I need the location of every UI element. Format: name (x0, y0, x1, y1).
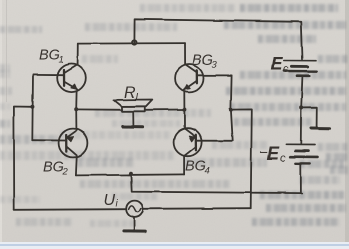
node right bases junction (229, 108, 233, 112)
svg-text:2: 2 (62, 167, 69, 178)
wire BG3 collector riser (184, 43, 186, 64)
transistor Q3 BG3 (NPN mirrored) (175, 64, 203, 92)
transistor Q2 BG2 (PNP) (59, 129, 88, 158)
node B (182, 108, 186, 112)
svg-text:E: E (267, 144, 280, 164)
label RL (124, 85, 141, 104)
wire bottom rail BG2-BG4 collectors (76, 174, 184, 175)
wire junction to far-left drop (14, 107, 33, 210)
node A (74, 107, 78, 111)
wire left bases branch: BG1 base corner down to BG2 base corner (31, 74, 34, 140)
svg-text:L: L (136, 92, 142, 103)
svg-text:BG: BG (192, 53, 213, 69)
svg-text:U: U (104, 192, 116, 209)
svg-text:i: i (116, 199, 119, 210)
svg-text:BG: BG (39, 48, 60, 64)
label Ec (271, 54, 290, 76)
wire Ui left lead (14, 208, 126, 211)
wire mid junction to -Ec plus (300, 108, 302, 143)
wire BG2 collector down (75, 157, 78, 175)
bottom scan edge (0, 242, 349, 249)
wire BG3 base lead (197, 74, 232, 76)
wire BG4 base lead (196, 140, 233, 142)
svg-text:E: E (271, 54, 284, 74)
wire node A to speaker (76, 108, 122, 110)
wire BG1 base lead (33, 73, 64, 75)
svg-text:c: c (280, 153, 286, 165)
transistor Q1 BG1 (NPN) (57, 64, 86, 93)
svg-text:R: R (124, 85, 136, 102)
wire collector rail BG1-BG3 (78, 42, 185, 45)
label -Ec (260, 144, 287, 165)
faint print-through text rows (background) (240, 4, 338, 12)
battery -Ec (286, 144, 317, 163)
transistor Q4 BG4 (PNP mirrored) (174, 128, 202, 156)
wire BG4 collector down (183, 156, 185, 175)
load RL speaker (114, 100, 152, 127)
svg-text:4: 4 (205, 166, 210, 177)
wire BG2 emitter to node A (75, 109, 77, 128)
wire -Ec minus down to bottom line (300, 164, 302, 193)
svg-text:BG: BG (185, 159, 206, 175)
label Ui (104, 192, 119, 210)
label BG3 (192, 53, 218, 71)
wire BG1 emitter to node A (75, 92, 77, 110)
ground (supply midpoint) (311, 127, 330, 130)
ground of Ui (124, 217, 145, 231)
wire right bases vertical (231, 75, 233, 140)
svg-text:c: c (283, 64, 289, 76)
wire junction to ground (301, 108, 317, 127)
svg-text:BG: BG (43, 160, 64, 176)
wire Ui right lead (143, 207, 251, 210)
label BG4 (185, 159, 210, 177)
label BG2 (43, 160, 69, 178)
node ring junction top (132, 40, 136, 44)
wire BG4 emitter to node B (183, 110, 185, 129)
svg-text:3: 3 (212, 60, 218, 71)
source Ui (126, 201, 143, 218)
label BG1 (39, 48, 64, 66)
wire bottom rail to -Ec minus terminal (131, 174, 302, 193)
svg-text:1: 1 (59, 55, 64, 66)
wire BG2 base lead (32, 139, 66, 141)
wire BG1 collector riser (77, 44, 79, 65)
node bottom rail junction (129, 172, 133, 176)
wire BG3 emitter to node B (183, 92, 185, 109)
wire bases junction to input drop (231, 109, 252, 208)
node mid supply junction (299, 106, 303, 110)
wire +Ec minus to mid junction (301, 77, 302, 108)
battery +Ec (284, 61, 317, 76)
wire top rail from junction ring to +Ec top (134, 19, 302, 59)
wire speaker to node B (145, 109, 185, 111)
node left bases junction (30, 105, 34, 109)
faint ruled line left margin (6, 0, 7, 102)
